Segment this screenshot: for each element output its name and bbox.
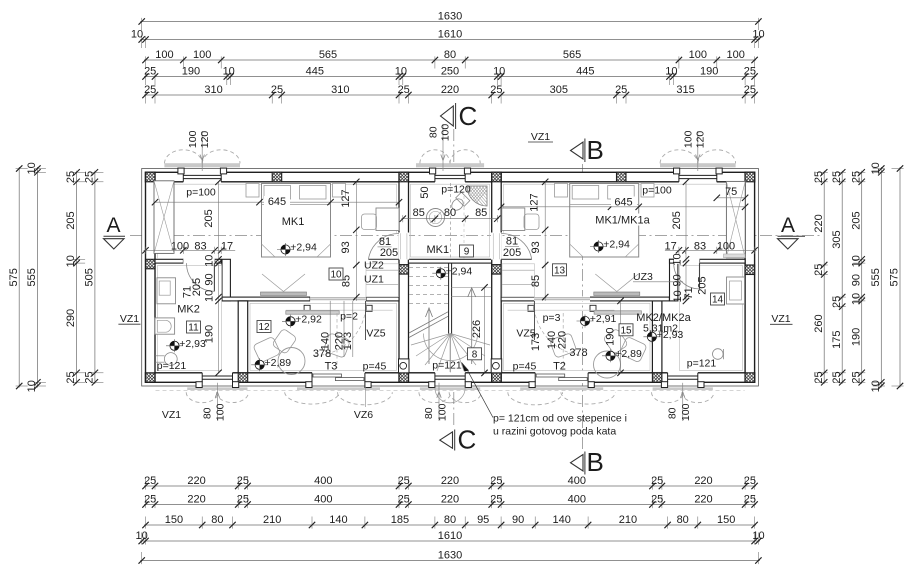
finish line bedroom R xyxy=(504,184,743,258)
svg-text:VZ6: VZ6 xyxy=(354,409,373,421)
interior dim line left 205/10-90-10/190 xyxy=(218,182,220,373)
svg-text:90: 90 xyxy=(672,274,684,286)
svg-text:+2,93: +2,93 xyxy=(657,329,684,341)
finish line bedroom L xyxy=(157,184,396,258)
desk R xyxy=(502,208,525,231)
svg-text:565: 565 xyxy=(319,49,337,61)
svg-text:100: 100 xyxy=(155,49,173,61)
chair L xyxy=(362,214,377,230)
interior dim 190 T2 right xyxy=(620,301,622,373)
svg-text:25: 25 xyxy=(398,84,410,96)
section line A-A xyxy=(130,235,820,237)
TV L xyxy=(261,292,307,296)
interior dims 140/220/173 T3 xyxy=(329,301,331,357)
entrance door D2 bottom-center 80/100 xyxy=(435,372,465,383)
svg-text:140: 140 xyxy=(329,514,347,526)
svg-text:25: 25 xyxy=(84,371,96,383)
svg-text:14: 14 xyxy=(712,295,724,306)
svg-text:+2,94: +2,94 xyxy=(290,242,317,254)
svg-text:555: 555 xyxy=(870,268,882,286)
svg-text:25: 25 xyxy=(490,84,502,96)
column bottom-right xyxy=(736,373,765,383)
svg-text:565: 565 xyxy=(563,49,581,61)
svg-text:90: 90 xyxy=(850,274,862,286)
svg-text:378: 378 xyxy=(313,348,331,360)
interior dim 10/90/10 MK2a door wall xyxy=(685,182,687,301)
terrace dashed line below building xyxy=(156,390,745,392)
closets UZ1 UZ2 L xyxy=(366,269,399,271)
door bedroom L (81) in core wall xyxy=(398,233,409,260)
finish line T3 xyxy=(250,303,397,370)
entrance door solid swing arcs xyxy=(435,388,450,403)
wardrobe R bottom shelf xyxy=(724,254,746,258)
column top wall x272 xyxy=(263,172,292,182)
svg-text:93: 93 xyxy=(340,241,352,253)
svg-text:p=120: p=120 xyxy=(441,184,471,196)
exterior wall left xyxy=(146,172,156,382)
door bedroom R (81) in core wall xyxy=(491,233,502,260)
svg-text:140: 140 xyxy=(553,514,571,526)
svg-text:UZ1: UZ1 xyxy=(364,274,384,286)
exterior wall bottom xyxy=(146,373,755,383)
svg-text:B: B xyxy=(587,135,604,165)
svg-text:93: 93 xyxy=(530,241,542,253)
svg-text:400: 400 xyxy=(314,475,332,487)
section marker C bottom xyxy=(440,432,453,448)
svg-text:VZ1: VZ1 xyxy=(771,313,790,325)
svg-text:25: 25 xyxy=(490,493,502,505)
svg-text:100: 100 xyxy=(440,124,452,142)
svg-text:310: 310 xyxy=(331,84,349,96)
svg-text:MK1: MK1 xyxy=(282,216,305,228)
svg-text:505: 505 xyxy=(84,268,96,286)
slider S2 bottom T2 140 xyxy=(535,372,588,383)
svg-text:p=121: p=121 xyxy=(432,360,462,372)
column right wall y265 xyxy=(736,265,765,275)
bathtub MK2 xyxy=(155,318,175,334)
right dimension chains xyxy=(823,171,825,384)
svg-text:25: 25 xyxy=(237,493,249,505)
svg-text:190: 190 xyxy=(605,328,617,346)
svg-text:90: 90 xyxy=(204,273,216,285)
svg-text:127: 127 xyxy=(340,189,352,207)
nightstand L-left xyxy=(246,184,259,198)
sliding panel T3 xyxy=(286,309,393,311)
svg-text:+2,92: +2,92 xyxy=(295,314,322,326)
svg-text:MK2: MK2 xyxy=(177,304,200,316)
svg-text:+2,94: +2,94 xyxy=(446,265,473,277)
svg-text:80: 80 xyxy=(677,514,689,526)
svg-text:71: 71 xyxy=(683,287,695,299)
svg-text:T2: T2 xyxy=(553,361,566,373)
svg-text:10: 10 xyxy=(671,253,683,265)
svg-text:p=45: p=45 xyxy=(363,361,387,373)
svg-text:100: 100 xyxy=(187,130,199,148)
svg-text:220: 220 xyxy=(441,493,459,505)
svg-text:25: 25 xyxy=(850,171,862,183)
svg-text:T3: T3 xyxy=(325,361,338,373)
svg-text:10: 10 xyxy=(752,530,764,542)
svg-text:p= 121cm od ove stepenice i: p= 121cm od ove stepenice i xyxy=(493,413,627,425)
svg-text:A: A xyxy=(106,214,120,237)
svg-text:220: 220 xyxy=(694,493,712,505)
opening bedroomR to T2 xyxy=(534,296,590,301)
washbasin MK2a xyxy=(727,277,745,304)
hall wall left vertical xyxy=(222,259,230,301)
svg-text:100: 100 xyxy=(171,240,189,252)
armchair T3 b xyxy=(323,333,350,358)
dashed vertical T2 xyxy=(562,313,564,368)
dashed vertical T3 xyxy=(336,313,338,368)
svg-text:10: 10 xyxy=(395,65,407,77)
svg-text:25: 25 xyxy=(651,493,663,505)
column core-left y264 xyxy=(390,265,419,275)
svg-text:VZ5: VZ5 xyxy=(516,328,535,340)
svg-text:205: 205 xyxy=(697,276,709,294)
svg-text:13: 13 xyxy=(554,265,566,276)
svg-text:10: 10 xyxy=(131,28,143,40)
svg-text:190: 190 xyxy=(850,328,862,346)
svg-text:127: 127 xyxy=(528,193,540,211)
svg-text:378: 378 xyxy=(569,347,587,359)
svg-text:120: 120 xyxy=(199,131,211,149)
dim 85/80/85 core xyxy=(401,218,499,220)
column top wall x618 xyxy=(607,172,636,182)
washbasin MK2 xyxy=(157,278,176,304)
pillow L2 xyxy=(300,186,327,200)
armchair T2 c xyxy=(603,328,628,354)
svg-text:10: 10 xyxy=(65,255,77,267)
svg-text:10: 10 xyxy=(870,162,882,174)
armchair T3 c xyxy=(272,328,297,354)
svg-text:10: 10 xyxy=(870,380,882,392)
svg-text:100: 100 xyxy=(682,130,694,148)
dim 645 bedroom R xyxy=(501,206,745,208)
svg-text:80: 80 xyxy=(444,207,456,219)
svg-text:10: 10 xyxy=(752,28,764,40)
core wall right (x491-501) xyxy=(492,172,502,382)
svg-text:400: 400 xyxy=(568,475,586,487)
pillow R2 xyxy=(608,186,635,200)
window W1 top-left 100/120 xyxy=(183,172,221,183)
svg-text:220: 220 xyxy=(187,493,205,505)
svg-text:25: 25 xyxy=(831,171,843,183)
interior dim 17/83/100 right xyxy=(665,249,757,251)
svg-text:25: 25 xyxy=(831,296,843,308)
section line B-B xyxy=(582,164,584,450)
T2 furniture xyxy=(619,336,647,363)
dashed arc T2 xyxy=(534,303,587,356)
column core-left top xyxy=(390,172,419,182)
chair R xyxy=(524,214,539,230)
svg-text:p=100: p=100 xyxy=(642,185,672,197)
T2 right wall xyxy=(652,301,662,373)
svg-text:B: B xyxy=(587,447,604,477)
svg-text:+2,93: +2,93 xyxy=(179,338,206,350)
svg-text:190: 190 xyxy=(182,65,200,77)
svg-text:25: 25 xyxy=(144,475,156,487)
svg-text:645: 645 xyxy=(614,196,632,208)
core divider wall y259-263 xyxy=(408,259,491,263)
section line C-C below xyxy=(453,392,455,428)
svg-text:50: 50 xyxy=(419,186,431,198)
svg-text:UZ3: UZ3 xyxy=(633,271,653,283)
column bottom wall x238 xyxy=(229,373,258,383)
column core-right y264 xyxy=(482,265,511,275)
section marker B top xyxy=(571,142,584,159)
svg-text:17: 17 xyxy=(221,240,233,252)
svg-text:25: 25 xyxy=(744,475,756,487)
svg-text:210: 210 xyxy=(263,514,281,526)
svg-text:p=121: p=121 xyxy=(687,358,717,370)
svg-text:220: 220 xyxy=(441,84,459,96)
svg-text:p=3: p=3 xyxy=(543,312,561,324)
door reveal bedroom L xyxy=(400,233,402,259)
svg-text:10: 10 xyxy=(850,293,862,305)
svg-text:220: 220 xyxy=(441,475,459,487)
svg-text:+2,89: +2,89 xyxy=(265,357,292,369)
svg-text:10: 10 xyxy=(26,162,38,174)
svg-text:25: 25 xyxy=(65,171,77,183)
svg-text:85: 85 xyxy=(475,207,487,219)
interior dim 100/83/17 left xyxy=(144,249,236,251)
section marker C top xyxy=(441,106,454,126)
window W3 top-right 100/120 xyxy=(679,172,717,183)
section line C-C xyxy=(453,129,455,167)
svg-text:1630: 1630 xyxy=(438,549,462,561)
svg-text:C: C xyxy=(459,101,478,131)
column core-right bottom xyxy=(482,373,511,383)
svg-text:25: 25 xyxy=(398,493,410,505)
svg-text:95: 95 xyxy=(477,514,489,526)
exterior wall right xyxy=(745,172,755,382)
stairs up arrow right xyxy=(471,290,473,365)
svg-text:25: 25 xyxy=(84,171,96,183)
svg-text:10: 10 xyxy=(330,270,342,281)
svg-text:150: 150 xyxy=(165,514,183,526)
svg-text:VZ1: VZ1 xyxy=(162,409,181,421)
levels xyxy=(281,245,290,254)
label MK1/MK1a right xyxy=(594,214,651,226)
svg-text:25: 25 xyxy=(271,84,283,96)
TV R xyxy=(594,292,640,296)
stairs break line left xyxy=(409,312,448,333)
svg-text:25: 25 xyxy=(813,171,825,183)
svg-text:80: 80 xyxy=(201,407,213,419)
svg-text:100: 100 xyxy=(689,49,707,61)
VZ5 line T2 xyxy=(534,301,536,340)
svg-text:210: 210 xyxy=(619,514,637,526)
svg-text:100: 100 xyxy=(717,240,735,252)
svg-text:11: 11 xyxy=(188,323,199,334)
svg-text:100: 100 xyxy=(436,403,448,421)
svg-text:81: 81 xyxy=(379,236,391,248)
svg-text:80: 80 xyxy=(423,407,435,419)
bottom dimension chains xyxy=(144,485,756,487)
svg-text:226: 226 xyxy=(471,320,483,338)
svg-text:205: 205 xyxy=(503,247,521,259)
svg-text:25: 25 xyxy=(813,371,825,383)
VZ5 line T3 xyxy=(365,301,367,340)
sliding panel T2 xyxy=(508,309,615,311)
armchair T3 a xyxy=(253,336,281,363)
MK2a top wall xyxy=(670,259,675,263)
svg-text:25: 25 xyxy=(744,84,756,96)
svg-text:10: 10 xyxy=(204,290,216,302)
interior dims 127/93/85 right xyxy=(544,182,546,301)
wardrobe L (X-box) xyxy=(154,181,174,254)
svg-text:90: 90 xyxy=(512,514,524,526)
stairs winder fan xyxy=(411,334,451,346)
column core-right top xyxy=(482,172,511,182)
interior dims 127/93/85 left xyxy=(355,182,357,301)
svg-text:315: 315 xyxy=(676,84,694,96)
sink core xyxy=(427,209,445,227)
svg-text:9: 9 xyxy=(464,247,470,258)
svg-text:575: 575 xyxy=(8,268,20,286)
svg-text:80: 80 xyxy=(667,407,679,419)
svg-text:p=45: p=45 xyxy=(513,361,537,373)
door reveal bedroom R xyxy=(492,233,494,259)
column top-right xyxy=(736,172,765,182)
svg-text:645: 645 xyxy=(268,196,286,208)
svg-text:p=121: p=121 xyxy=(157,360,187,372)
svg-text:10: 10 xyxy=(135,530,147,542)
nightstand L-right xyxy=(333,184,346,198)
svg-text:25: 25 xyxy=(237,475,249,487)
bed L xyxy=(262,184,331,258)
svg-text:1610: 1610 xyxy=(438,28,462,40)
svg-text:25: 25 xyxy=(813,264,825,276)
svg-text:400: 400 xyxy=(568,493,586,505)
svg-text:220: 220 xyxy=(813,214,825,232)
door D3 bottom-right 80/100 xyxy=(668,372,698,383)
top dimension chains xyxy=(140,21,760,23)
window W2 top-center 80/100 xyxy=(435,172,465,183)
opening bedroomL to T3 xyxy=(310,296,366,301)
column bottom wall x652 xyxy=(643,373,672,383)
svg-text:185: 185 xyxy=(391,514,409,526)
svg-text:173: 173 xyxy=(342,332,354,350)
svg-text:150: 150 xyxy=(717,514,735,526)
toilet MK2 xyxy=(164,353,177,366)
svg-text:81: 81 xyxy=(506,236,518,248)
svg-text:290: 290 xyxy=(65,309,77,327)
column left wall y259 xyxy=(136,259,165,269)
svg-text:220: 220 xyxy=(694,475,712,487)
pillow L1 xyxy=(264,186,291,200)
dashed partition core xyxy=(449,183,451,259)
svg-text:10: 10 xyxy=(665,65,677,77)
table T3 xyxy=(278,348,305,375)
svg-text:575: 575 xyxy=(889,268,901,286)
svg-text:+2,89: +2,89 xyxy=(615,348,642,360)
svg-text:8: 8 xyxy=(472,349,478,360)
finish line MK2a xyxy=(679,266,742,371)
svg-text:1610: 1610 xyxy=(438,530,462,542)
svg-text:VZ1: VZ1 xyxy=(120,313,139,325)
stairs up arrow left xyxy=(428,310,430,364)
svg-text:MK1/MK1a: MK1/MK1a xyxy=(595,215,650,227)
svg-text:17: 17 xyxy=(664,240,676,252)
insulation outline xyxy=(142,169,759,387)
svg-text:205: 205 xyxy=(203,209,215,227)
svg-text:25: 25 xyxy=(490,475,502,487)
finish line T2 xyxy=(504,303,651,370)
svg-text:83: 83 xyxy=(194,240,206,252)
svg-text:75: 75 xyxy=(725,186,737,198)
svg-text:400: 400 xyxy=(314,493,332,505)
svg-text:25: 25 xyxy=(744,493,756,505)
svg-text:+2,91: +2,91 xyxy=(590,313,617,325)
svg-text:205: 205 xyxy=(380,247,398,259)
svg-text:15: 15 xyxy=(620,325,632,336)
svg-text:310: 310 xyxy=(204,84,222,96)
svg-text:25: 25 xyxy=(651,475,663,487)
svg-text:305: 305 xyxy=(550,84,568,96)
MK2 top wall xyxy=(155,259,183,263)
svg-text:p=2: p=2 xyxy=(340,311,358,323)
interior dim 226 stairs xyxy=(484,287,486,373)
svg-text:10: 10 xyxy=(26,380,38,392)
svg-text:205: 205 xyxy=(65,211,77,229)
svg-text:83: 83 xyxy=(694,240,706,252)
svg-text:445: 445 xyxy=(306,65,324,77)
bed R xyxy=(570,184,639,258)
svg-text:p=100: p=100 xyxy=(186,187,216,199)
room tags xyxy=(187,321,201,333)
column core-left bottom xyxy=(390,373,419,383)
T3 left wall xyxy=(238,301,248,373)
svg-text:25: 25 xyxy=(144,65,156,77)
svg-text:A: A xyxy=(781,214,795,237)
toilet MK2a xyxy=(713,349,724,360)
svg-text:25: 25 xyxy=(831,371,843,383)
bedroom R bottom wall xyxy=(501,297,535,301)
slider S1 bottom T3 140 xyxy=(312,372,365,383)
core wall left (x399-408) xyxy=(399,172,409,382)
svg-text:VZ5: VZ5 xyxy=(366,328,385,340)
svg-text:175: 175 xyxy=(831,331,843,349)
closet UZ3 R xyxy=(502,269,535,271)
column bottom-left xyxy=(136,373,165,383)
stairs dashed treads left flight xyxy=(409,267,449,269)
svg-text:10: 10 xyxy=(850,255,862,267)
svg-text:1630: 1630 xyxy=(438,10,462,22)
svg-text:25: 25 xyxy=(615,84,627,96)
svg-text:25: 25 xyxy=(744,65,756,77)
svg-text:10: 10 xyxy=(204,255,216,267)
svg-text:100: 100 xyxy=(215,403,227,421)
hall wall right vertical xyxy=(670,259,678,301)
svg-text:12: 12 xyxy=(258,322,270,333)
svg-text:80: 80 xyxy=(428,126,440,138)
left dimension chains xyxy=(18,167,20,388)
vent boxes at core wall ends xyxy=(399,359,410,373)
svg-text:205: 205 xyxy=(191,278,203,296)
exterior wall top xyxy=(146,172,755,182)
svg-text:100: 100 xyxy=(193,49,211,61)
svg-text:220: 220 xyxy=(187,475,205,487)
door MK2a (71) in top wall xyxy=(674,259,700,264)
dim 75 wardrobe R xyxy=(717,197,745,199)
svg-text:UZ2: UZ2 xyxy=(364,260,384,272)
svg-text:445: 445 xyxy=(576,65,594,77)
svg-text:MK1: MK1 xyxy=(426,244,449,256)
finish line core room xyxy=(410,184,489,257)
finish line MK2 xyxy=(157,266,221,371)
bedroom L bottom wall xyxy=(222,297,310,301)
